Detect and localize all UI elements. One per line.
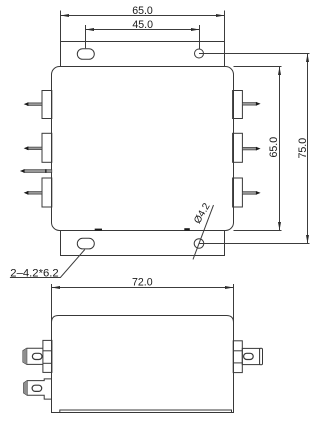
svg-text:75.0: 75.0 — [297, 138, 309, 159]
svg-text:65.0: 65.0 — [268, 137, 280, 158]
svg-text:2–4.2*6.2: 2–4.2*6.2 — [10, 268, 58, 280]
svg-text:65.0: 65.0 — [132, 5, 153, 17]
svg-text:72.0: 72.0 — [132, 277, 153, 289]
svg-text:45.0: 45.0 — [132, 19, 153, 31]
